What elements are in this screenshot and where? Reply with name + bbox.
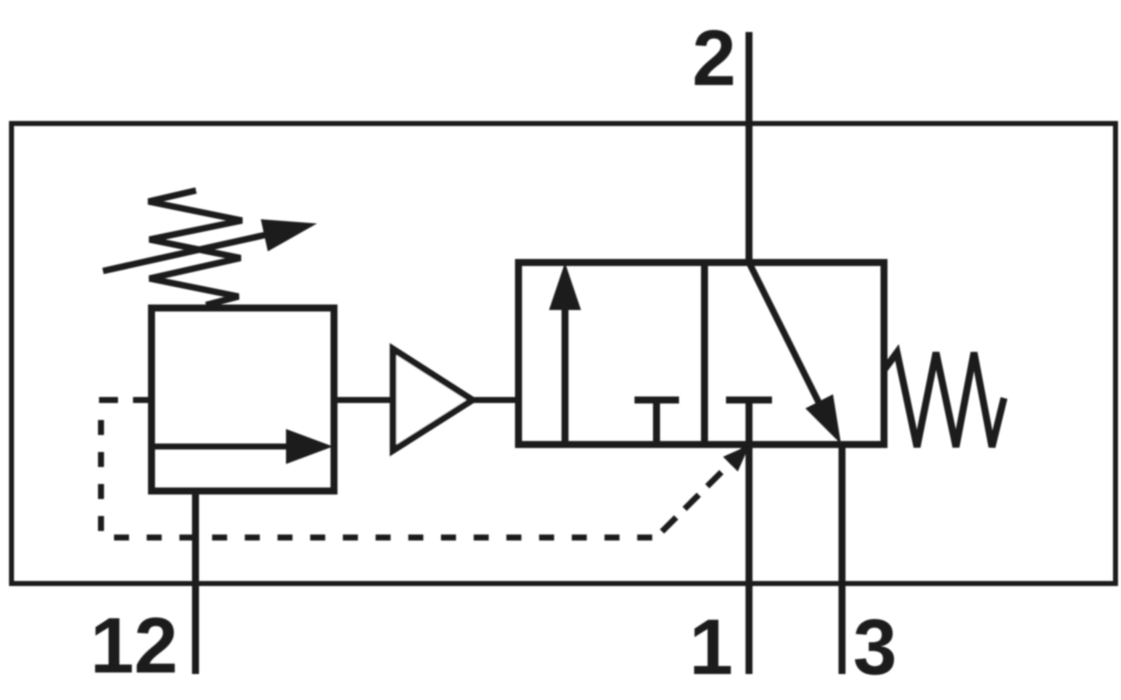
svg-text:12: 12 [90, 601, 178, 690]
svg-text:3: 3 [853, 602, 897, 691]
svg-text:1: 1 [689, 602, 733, 691]
svg-text:2: 2 [692, 13, 736, 102]
